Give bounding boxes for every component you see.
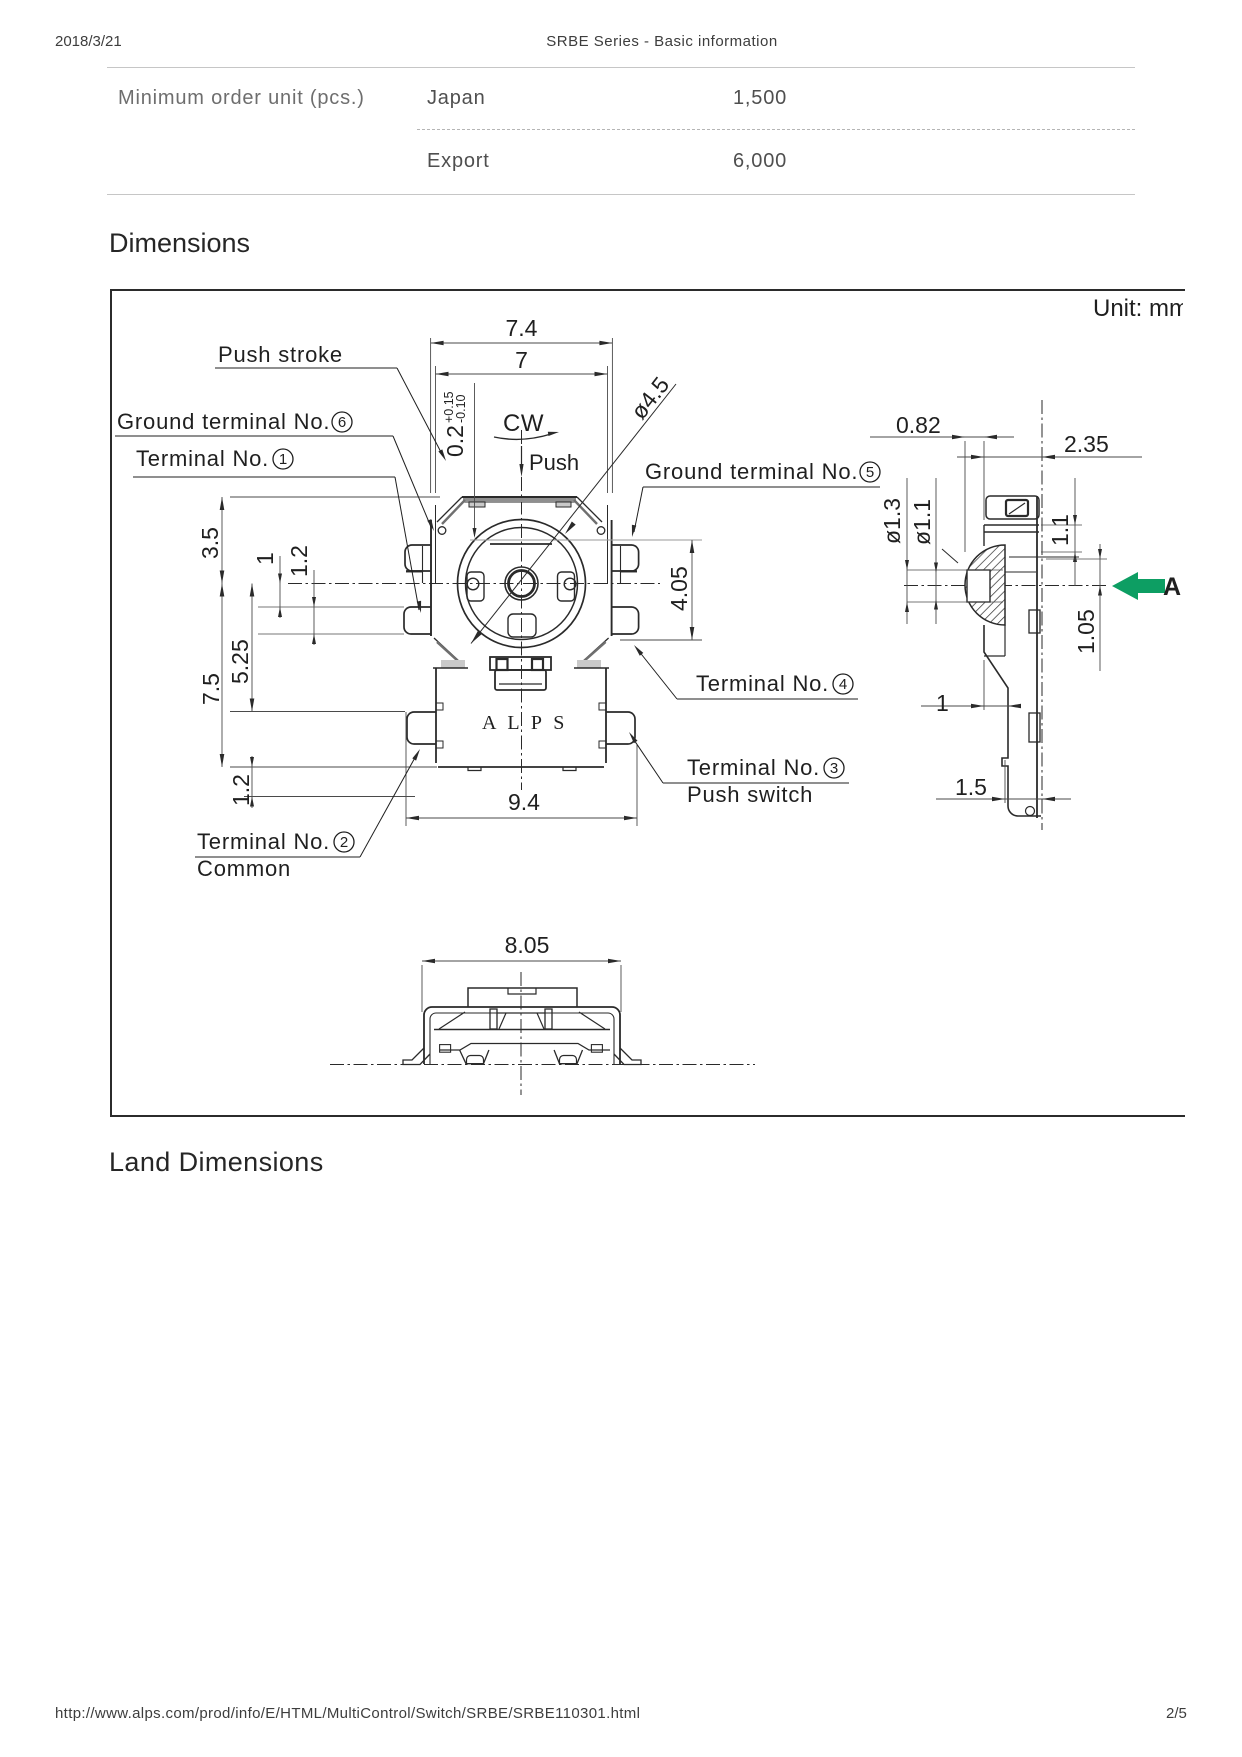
- bottom view left foot: [460, 1050, 489, 1064]
- side view horizontal centerline: [904, 585, 1108, 587]
- dia 4.5 leader: [471, 384, 676, 644]
- top-left ground tab chamfer: [437, 497, 462, 522]
- bottom view horizontal centerline (seating plane): [330, 1064, 755, 1066]
- footer url: [55, 1705, 640, 1722]
- bottom view lower profile: [440, 1044, 610, 1051]
- dim dia 1.1: [935, 478, 937, 624]
- dim 1.2 bottom: [251, 756, 253, 808]
- svg-text:8.05: 8.05: [505, 932, 550, 958]
- svg-text:5.25: 5.25: [227, 639, 253, 684]
- middle-left terminal No.1: [404, 607, 431, 634]
- bottom view center switch block: [490, 1009, 497, 1029]
- center shaft ring: [505, 567, 538, 600]
- dim 7.5: [221, 584, 223, 768]
- dim 2.35: [957, 456, 1142, 458]
- svg-text:Terminal No.: Terminal No.: [197, 829, 330, 854]
- lower-right terminal No.3: [606, 712, 635, 744]
- left detent hole: [467, 578, 479, 590]
- top-right ground tab chamfer: [577, 497, 602, 522]
- dim 1.1 side: [1074, 478, 1076, 586]
- right detent hole: [564, 578, 576, 590]
- table row 1: [118, 87, 365, 110]
- upper-right terminal No.5: [612, 545, 639, 571]
- dim 3.5: [230, 496, 440, 498]
- svg-text:Push switch: Push switch: [687, 782, 813, 807]
- table top rule: [107, 67, 1135, 68]
- svg-text:Terminal No.: Terminal No.: [687, 755, 820, 780]
- svg-text:ø1.3: ø1.3: [879, 498, 905, 544]
- header date: [55, 33, 122, 50]
- dim 1: [279, 556, 281, 618]
- svg-text:7.5: 7.5: [198, 673, 224, 705]
- svg-text:Ground terminal No.: Ground terminal No.: [117, 409, 330, 434]
- lower index notch: [508, 614, 536, 637]
- body bottom edge: [438, 766, 604, 768]
- svg-text:A L P S: A L P S: [482, 712, 568, 734]
- bottom view right foot: [554, 1050, 582, 1064]
- bottom view left flare foot: [403, 1048, 430, 1065]
- side body back face: [1036, 496, 1038, 818]
- svg-text:Terminal No.: Terminal No.: [136, 446, 269, 471]
- bottom view right flare foot: [614, 1048, 641, 1065]
- left detent boss: [467, 572, 484, 601]
- svg-text:7: 7: [515, 347, 528, 373]
- drawing frame (right edge cropped): [110, 289, 1185, 1117]
- dim 4.05: [620, 639, 702, 641]
- svg-text:4: 4: [839, 676, 847, 693]
- svg-text:0.2: 0.2: [442, 425, 468, 457]
- bottom view diagonals: [439, 1012, 465, 1029]
- dim 7.4: [430, 338, 432, 493]
- lower body sides: [435, 668, 437, 763]
- lower-left terminal No.2: [407, 712, 436, 744]
- svg-text:Common: Common: [197, 856, 291, 881]
- svg-text:1: 1: [279, 451, 287, 468]
- svg-text:7.4: 7.4: [506, 315, 538, 341]
- header title: [0, 33, 1242, 50]
- svg-text:1.5: 1.5: [955, 774, 987, 800]
- svg-text:9.4: 9.4: [508, 789, 540, 815]
- svg-text:2.35: 2.35: [1064, 431, 1109, 457]
- drawing svg placeholder: [110, 289, 1183, 1113]
- svg-text:2: 2: [340, 834, 348, 851]
- vertical centerline (top view): [521, 430, 523, 790]
- bottom view main frame: [424, 1007, 620, 1064]
- svg-text:3.5: 3.5: [197, 527, 223, 559]
- rotor inner circle (dia 4.5): [466, 528, 578, 640]
- svg-text:1.2: 1.2: [286, 545, 312, 577]
- bottom view vertical centerline: [520, 972, 522, 1095]
- dim 1.5 side: [1004, 760, 1006, 803]
- body right edge: [611, 520, 613, 636]
- dim 5.25: [251, 584, 253, 712]
- svg-text:6: 6: [338, 414, 346, 431]
- dim 1 side: [983, 660, 985, 710]
- svg-text:0.82: 0.82: [896, 412, 941, 438]
- push switch tab: [490, 657, 551, 670]
- top flange: [984, 524, 1039, 526]
- bottom-right chamfer: [581, 638, 609, 663]
- dim 1.2 terminal: [313, 570, 315, 645]
- svg-text:ø1.1: ø1.1: [909, 499, 935, 545]
- body left edge: [430, 520, 432, 636]
- svg-text:Push: Push: [529, 450, 579, 475]
- shaft slot notch: [967, 570, 990, 602]
- dim 8.05: [421, 965, 423, 1012]
- svg-text:Push stroke: Push stroke: [218, 342, 343, 367]
- dashed rule: [417, 129, 1135, 130]
- upper-left terminal: [405, 545, 431, 571]
- rotor outer circle: [458, 520, 586, 648]
- bottom view upper block: [468, 988, 577, 1007]
- dim 0.82: [964, 441, 966, 552]
- dim 1.05: [1099, 544, 1101, 671]
- side view vertical centerline: [1041, 400, 1043, 830]
- body outline (top view): [462, 496, 577, 498]
- dim 9.4: [405, 712, 407, 826]
- top terminal cap: [986, 496, 1039, 519]
- dim 7: [435, 366, 437, 493]
- terminal inner edges: [620, 546, 622, 583]
- svg-text:Terminal No.: Terminal No.: [696, 671, 829, 696]
- dim dia 1.3: [906, 478, 908, 624]
- table row 2: [427, 150, 490, 173]
- svg-text:ø4.5: ø4.5: [625, 372, 674, 424]
- bottom-left chamfer: [434, 638, 461, 663]
- dim 0.2 push stroke tolerance: [474, 383, 476, 536]
- Dimensions heading: [109, 228, 250, 259]
- table bottom rule: [107, 194, 1135, 195]
- middle-right terminal No.4: [612, 607, 639, 634]
- footer page: [1166, 1705, 1187, 1722]
- svg-text:Ground terminal No.: Ground terminal No.: [645, 459, 858, 484]
- side profile lower: [984, 625, 1041, 816]
- svg-text:1.2: 1.2: [228, 774, 254, 806]
- svg-text:A: A: [1163, 573, 1181, 601]
- right detent boss: [558, 572, 575, 601]
- rotor flat chord lines: [470, 539, 702, 541]
- center hex hole: [509, 571, 535, 597]
- svg-text:4.05: 4.05: [666, 566, 692, 611]
- Land Dimensions heading: [109, 1147, 324, 1178]
- svg-text:3: 3: [830, 760, 838, 777]
- svg-text:5: 5: [866, 464, 874, 481]
- svg-text:1: 1: [252, 552, 278, 565]
- view A arrow: [1112, 572, 1165, 600]
- svg-text:-0.10: -0.10: [454, 394, 468, 423]
- horizontal centerline (top view): [288, 583, 660, 585]
- svg-text:1.1: 1.1: [1047, 514, 1073, 546]
- svg-text:Unit: mm: Unit: mm: [1093, 295, 1183, 322]
- svg-text:CW: CW: [503, 410, 544, 437]
- svg-text:1: 1: [936, 690, 949, 716]
- svg-text:1.05: 1.05: [1073, 609, 1099, 654]
- shaft dome (section A): [965, 545, 1005, 625]
